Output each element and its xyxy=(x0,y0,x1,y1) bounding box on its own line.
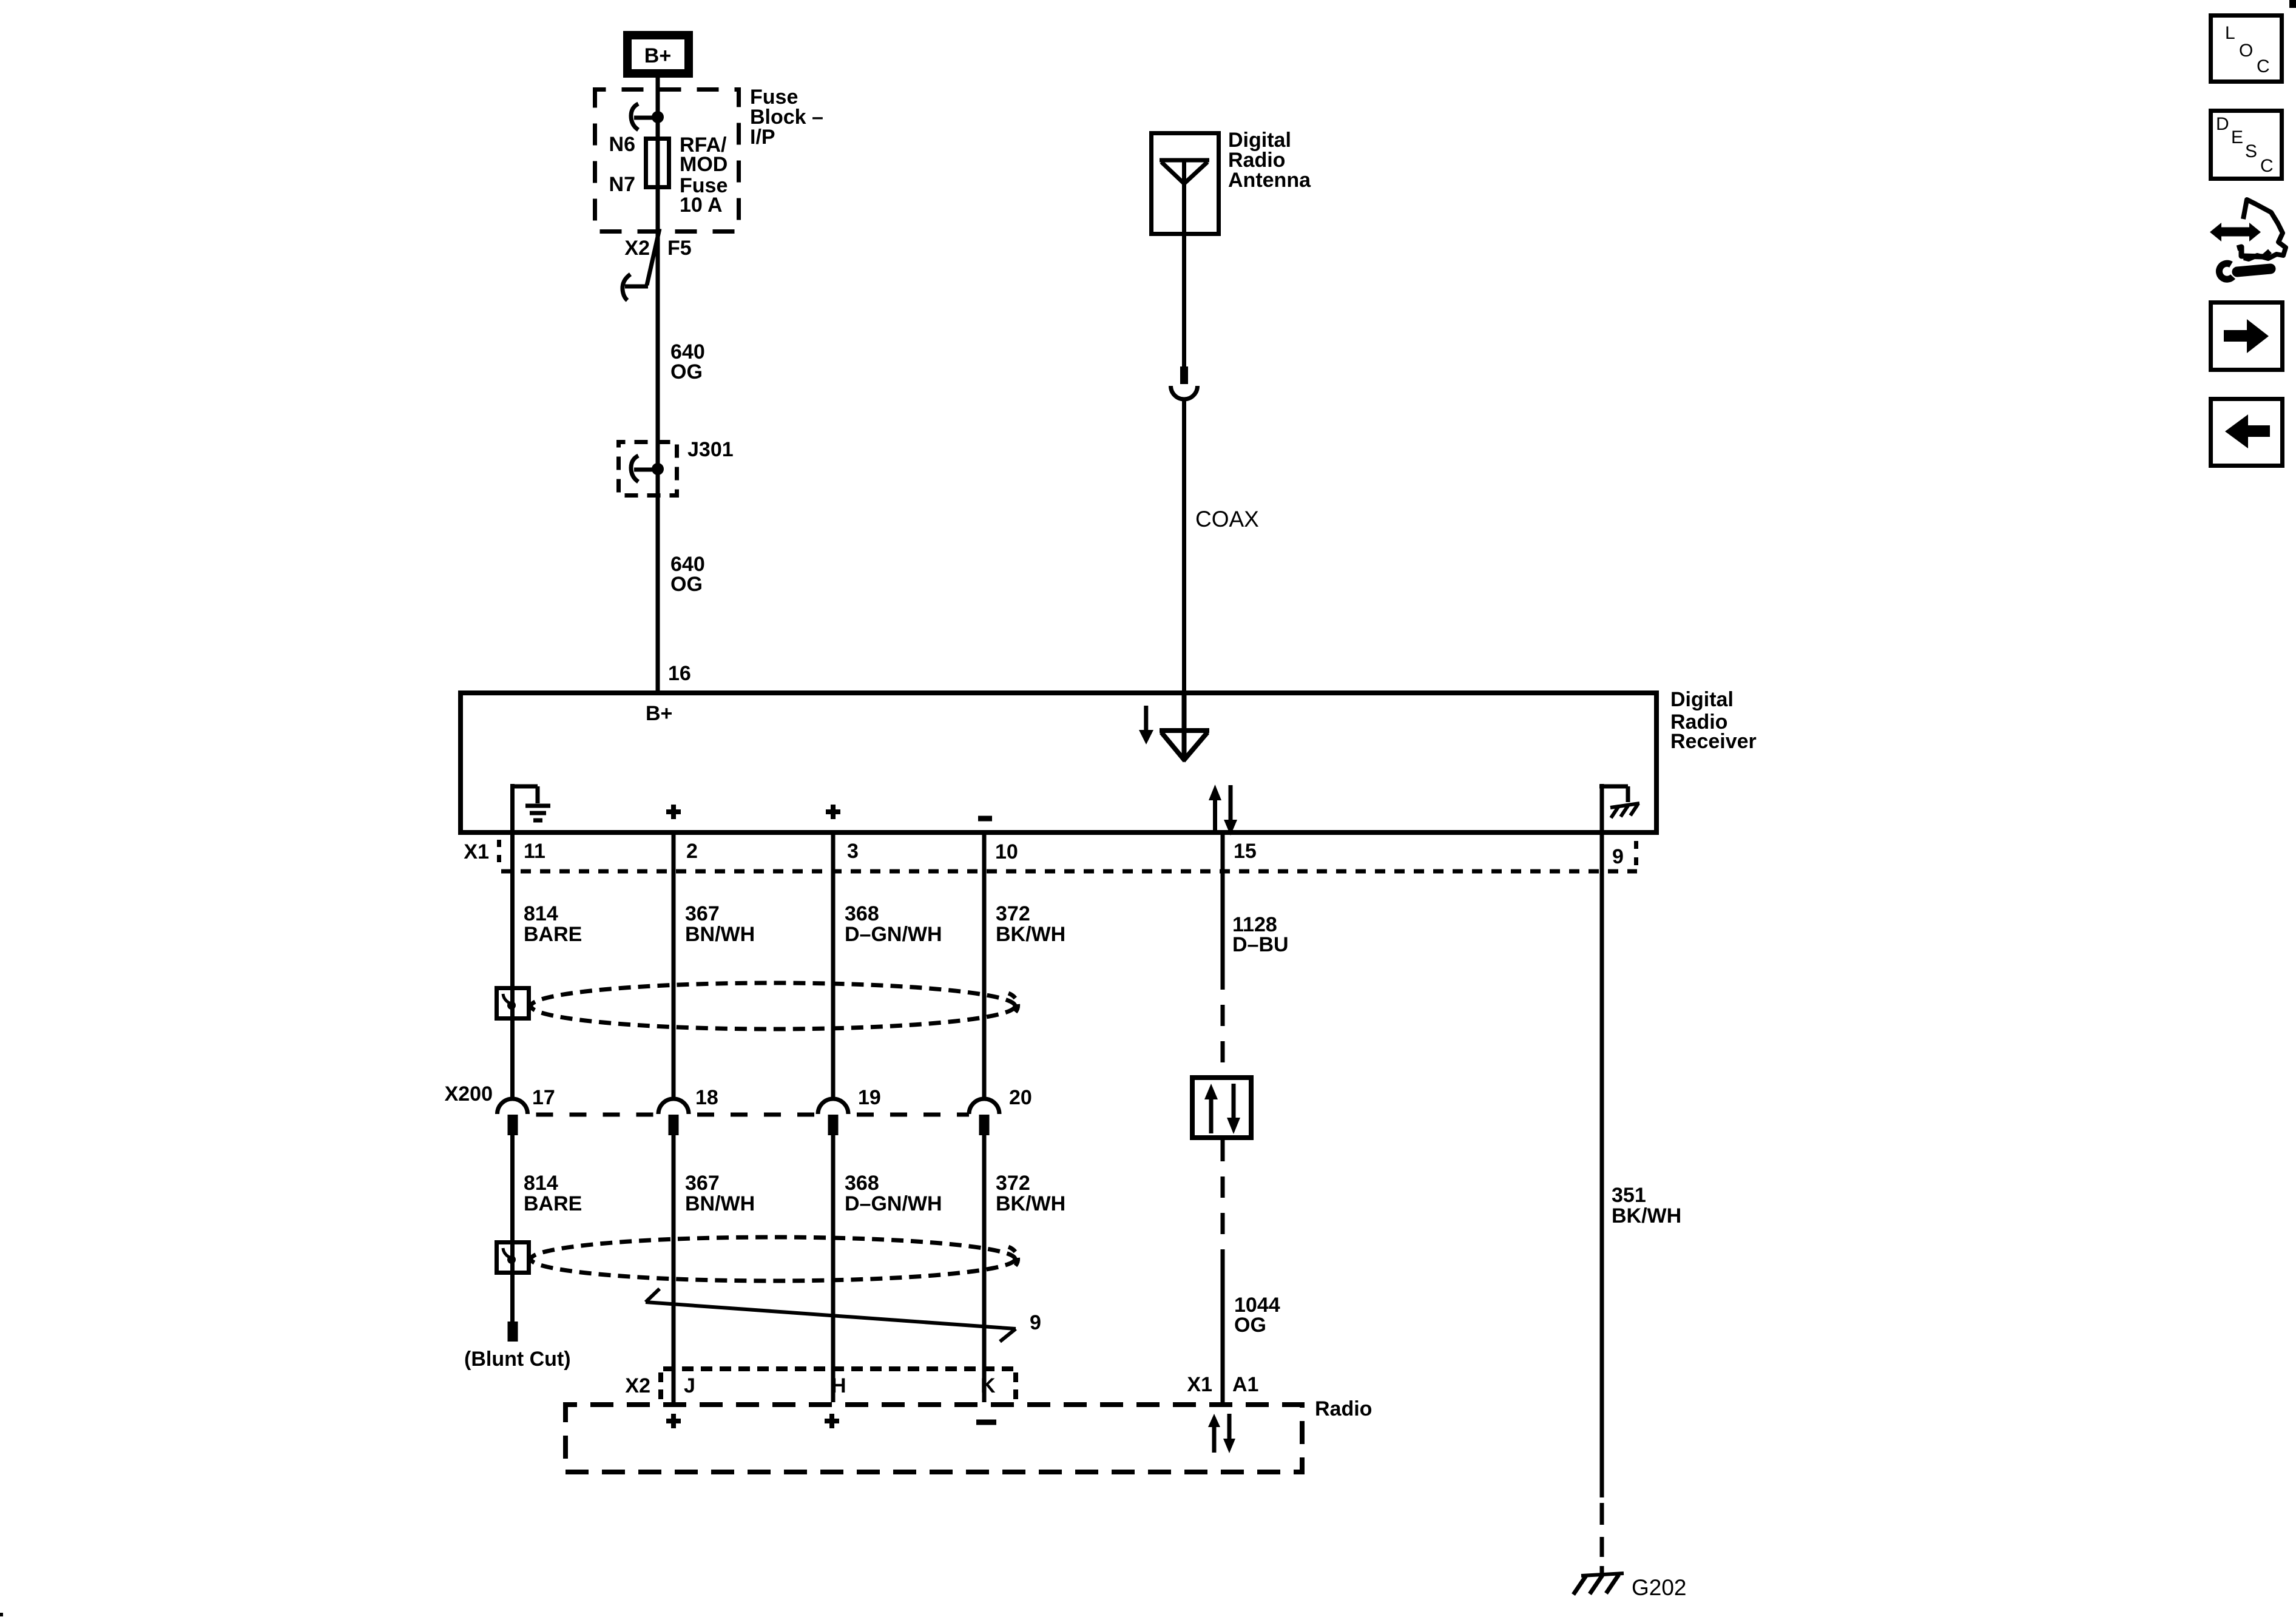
svg-text:367: 367 xyxy=(685,1172,720,1195)
splice J301 dashed box xyxy=(619,442,677,496)
svg-text:J: J xyxy=(684,1374,695,1397)
wire 814 BARE lower segment xyxy=(510,1135,515,1322)
svg-text:I/P: I/P xyxy=(750,126,775,149)
coax inline connector male pin xyxy=(1180,366,1188,384)
svg-text:BK/WH: BK/WH xyxy=(1612,1204,1681,1227)
svg-text:368: 368 xyxy=(845,902,879,925)
svg-text:OG: OG xyxy=(1234,1314,1266,1337)
wire 367 BN/WH upper segment xyxy=(672,835,676,1099)
minus symbol pin K xyxy=(976,1420,996,1425)
page mark bottom left xyxy=(0,1613,3,1616)
svg-text:9: 9 xyxy=(1030,1311,1041,1334)
antenna input symbol inside receiver xyxy=(1160,693,1209,761)
plus symbol pin 2 xyxy=(666,805,681,819)
svg-text:367: 367 xyxy=(685,902,720,925)
wire 814 BARE upper segment xyxy=(510,835,515,1099)
wire 1044 OG solid segment xyxy=(1221,1268,1225,1402)
node junction at fuse feed xyxy=(652,111,664,123)
svg-text:Receiver: Receiver xyxy=(1670,730,1757,753)
svg-text:Antenna: Antenna xyxy=(1228,169,1311,192)
antenna symbol xyxy=(1160,160,1209,234)
svg-text:15: 15 xyxy=(1234,840,1257,863)
svg-text:OG: OG xyxy=(670,573,703,596)
terminal N6 hook symbol xyxy=(631,104,658,130)
svg-text:N6: N6 xyxy=(609,133,635,156)
svg-text:2: 2 xyxy=(686,840,698,863)
shield ellipse upper right tail xyxy=(1008,993,1018,1016)
wire 351 BK/WH solid segment from pin 9 xyxy=(1600,835,1604,1497)
svg-text:N7: N7 xyxy=(609,173,635,196)
svg-text:X2: X2 xyxy=(625,1374,650,1397)
plus symbol pin H xyxy=(825,1414,839,1428)
svg-text:B+: B+ xyxy=(644,44,671,67)
minus symbol pin 10 xyxy=(978,816,992,822)
svg-text:X1: X1 xyxy=(1187,1373,1212,1396)
ground G202 symbol xyxy=(1573,1573,1624,1595)
svg-text:D–GN/WH: D–GN/WH xyxy=(845,1192,942,1215)
svg-text:372: 372 xyxy=(996,902,1030,925)
connector X200 socket pin 18 xyxy=(658,1099,689,1114)
plus symbol pin 3 xyxy=(826,805,840,819)
svg-text:D–GN/WH: D–GN/WH xyxy=(845,923,942,946)
connector X200 socket pin 17 xyxy=(498,1099,528,1114)
connector X2 cavity F5 symbol xyxy=(623,229,660,300)
wire 1128 D-BU solid segment from pin 15 xyxy=(1221,835,1225,990)
plus symbol pin J xyxy=(666,1414,681,1428)
svg-text:BK/WH: BK/WH xyxy=(996,1192,1065,1215)
svg-text:368: 368 xyxy=(845,1172,879,1195)
module Radio dashed box xyxy=(566,1405,1302,1472)
antenna U1 Digital Radio Antenna box xyxy=(1152,133,1219,234)
chassis ground pin symbol inside receiver (pin 9) xyxy=(1599,784,1639,835)
svg-text:20: 20 xyxy=(1009,1086,1032,1109)
svg-text:S: S xyxy=(2245,141,2257,161)
svg-text:D–BU: D–BU xyxy=(1232,933,1289,956)
svg-text:G202: G202 xyxy=(1632,1575,1687,1600)
wire B+ feed from B+ box to receiver pin 16 xyxy=(656,78,660,693)
blunt cut end of wire 814 xyxy=(508,1322,518,1342)
wire 372 BK/WH upper segment xyxy=(982,835,987,1099)
shield drain terminal box upper xyxy=(497,988,529,1019)
bidirectional arrows pin 15 inside receiver xyxy=(1209,785,1237,836)
wire 1044 dashed segment below box xyxy=(1221,1140,1225,1268)
svg-text:372: 372 xyxy=(996,1172,1030,1195)
signal down arrow inside receiver xyxy=(1139,706,1153,744)
icon right arrow box xyxy=(2211,303,2283,370)
connector X200 male pin 20 xyxy=(979,1115,990,1135)
connector X200 socket pin 19 xyxy=(818,1099,848,1114)
shield ellipse lower xyxy=(531,1237,1015,1281)
shield ellipse lower right tail xyxy=(1008,1247,1018,1269)
wire 368 D-GN/WH lower segment xyxy=(831,1135,836,1402)
svg-text:18: 18 xyxy=(695,1086,718,1109)
svg-text:L: L xyxy=(2225,23,2235,43)
svg-text:814: 814 xyxy=(524,902,558,925)
fuse block I/P dashed box xyxy=(595,90,739,232)
wire 368 D-GN/WH upper segment xyxy=(831,835,836,1099)
svg-text:F5: F5 xyxy=(667,237,692,260)
wire 1128 dashed segment xyxy=(1221,990,1225,1075)
wire antenna lead xyxy=(1182,234,1186,368)
svg-text:H: H xyxy=(831,1374,846,1397)
svg-text:17: 17 xyxy=(532,1086,555,1109)
svg-text:Digital: Digital xyxy=(1670,688,1734,711)
svg-text:16: 16 xyxy=(668,662,691,685)
svg-text:351: 351 xyxy=(1612,1184,1646,1207)
svg-text:BN/WH: BN/WH xyxy=(685,1192,755,1215)
svg-text:D: D xyxy=(2216,114,2229,134)
shield drain terminal box lower xyxy=(497,1243,529,1273)
ground pin symbol inside receiver (pin 11) xyxy=(510,784,550,835)
wire 372 BK/WH lower segment xyxy=(982,1135,987,1402)
svg-text:Radio: Radio xyxy=(1315,1397,1372,1420)
svg-text:BN/WH: BN/WH xyxy=(685,923,755,946)
node junction J301 xyxy=(652,463,664,475)
icon left arrow box xyxy=(2211,399,2283,466)
svg-text:9: 9 xyxy=(1612,845,1624,868)
svg-text:A1: A1 xyxy=(1232,1373,1258,1396)
svg-text:11: 11 xyxy=(524,840,545,863)
svg-text:19: 19 xyxy=(858,1086,881,1109)
svg-text:MOD: MOD xyxy=(680,153,728,176)
svg-text:C: C xyxy=(2257,56,2270,76)
connector X1 dashed boundary xyxy=(499,840,1638,872)
svg-text:COAX: COAX xyxy=(1195,507,1259,532)
connector X200 male pin 18 xyxy=(669,1115,679,1135)
svg-text:B+: B+ xyxy=(646,702,672,725)
page corner mark top right xyxy=(2289,0,2296,8)
svg-text:X200: X200 xyxy=(445,1082,493,1106)
svg-text:3: 3 xyxy=(847,840,859,863)
icon shift lever with arrows and wrench xyxy=(2210,200,2286,279)
svg-text:(Blunt Cut): (Blunt Cut) xyxy=(464,1348,571,1371)
svg-text:BK/WH: BK/WH xyxy=(996,923,1065,946)
svg-text:10 A: 10 A xyxy=(680,194,723,217)
power symbol B+ box xyxy=(627,35,689,73)
connector X200 male pin 19 xyxy=(828,1115,839,1135)
bidirectional arrows inside radio xyxy=(1208,1414,1235,1453)
svg-text:10: 10 xyxy=(995,840,1018,863)
svg-text:OG: OG xyxy=(670,360,703,383)
coax inline connector female socket xyxy=(1171,386,1198,399)
wire COAX to receiver xyxy=(1182,399,1186,693)
icon DESC box xyxy=(2211,111,2282,179)
connector X200 male pin 17 xyxy=(508,1115,518,1135)
svg-text:BARE: BARE xyxy=(524,923,582,946)
svg-text:E: E xyxy=(2231,127,2243,147)
wire 351 dashed segment xyxy=(1600,1503,1604,1557)
wire 367 BN/WH lower segment xyxy=(672,1135,676,1402)
svg-text:C: C xyxy=(2260,156,2274,176)
shield ellipse upper xyxy=(531,983,1015,1029)
svg-text:BARE: BARE xyxy=(524,1192,582,1215)
shield drain reference line to pin 9 xyxy=(646,1289,1016,1342)
inline data link connector box with arrows xyxy=(1192,1078,1251,1138)
svg-text:J301: J301 xyxy=(687,438,734,461)
svg-text:814: 814 xyxy=(524,1172,558,1195)
module Digital Radio Receiver box xyxy=(461,693,1656,832)
svg-text:O: O xyxy=(2239,41,2253,61)
svg-text:X2: X2 xyxy=(624,237,650,260)
connector X2 radio dotted boundary xyxy=(661,1369,1018,1399)
connector X200 dashed boundary xyxy=(528,1113,970,1117)
svg-text:X1: X1 xyxy=(464,840,489,863)
terminal hook at J301 xyxy=(631,456,658,482)
fuse RFA/MOD Fuse 10 A xyxy=(646,139,669,187)
icon LOC box xyxy=(2211,16,2282,82)
svg-text:K: K xyxy=(981,1374,996,1397)
connector X200 socket pin 20 xyxy=(969,1099,999,1114)
